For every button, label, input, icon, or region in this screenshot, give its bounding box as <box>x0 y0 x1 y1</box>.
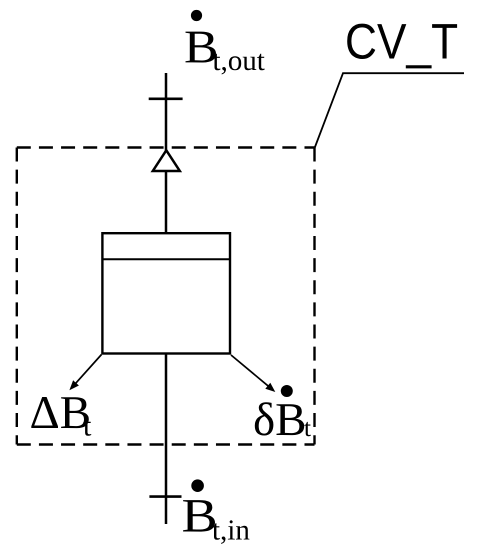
boundary crossing tick (bottom) <box>149 495 181 498</box>
arrow to delta-B_t (left loss arrow) <box>69 355 101 391</box>
stream line (top, B_t,out) <box>165 73 168 152</box>
triangle (outflow symbol) <box>153 150 180 171</box>
boundary crossing tick (top) <box>149 98 183 101</box>
label B_t,in <box>183 500 249 544</box>
label delta-dot-B_t <box>255 402 311 436</box>
stream line (bottom, B_t,in) <box>165 354 168 525</box>
control volume boundary CV_T (dashed box) <box>17 148 315 445</box>
arrow to delta-dot-B_t (right loss arrow) <box>231 355 275 392</box>
level line inside tank <box>102 258 230 260</box>
tank/component rectangle <box>102 233 230 353</box>
dot (rate) over B_t,in <box>191 479 204 492</box>
label B_t,out <box>186 32 265 75</box>
label CV_T <box>347 24 457 69</box>
dot (rate) over B_t,out <box>191 10 202 21</box>
label Delta-B_t <box>31 397 91 436</box>
callout line from CV_T to control volume boundary <box>315 73 464 147</box>
wire: triangle to tank <box>165 171 168 234</box>
dot (rate) over delta-B_t <box>281 385 293 397</box>
